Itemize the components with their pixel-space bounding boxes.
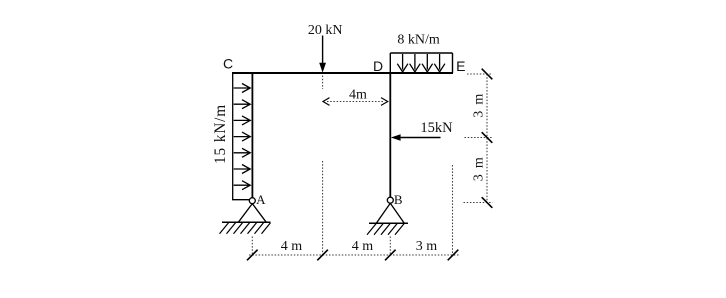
svg-text:3 m: 3 m <box>416 239 438 254</box>
svg-text:4m: 4m <box>349 88 367 103</box>
svg-text:B: B <box>394 192 403 207</box>
svg-text:4 m: 4 m <box>352 239 374 254</box>
svg-text:3 m: 3 m <box>471 157 486 181</box>
svg-text:15 kN/m: 15 kN/m <box>212 104 229 164</box>
svg-text:E: E <box>456 58 465 74</box>
svg-text:3 m: 3 m <box>471 94 486 118</box>
svg-text:20 kN: 20 kN <box>308 23 343 38</box>
svg-text:C: C <box>223 56 233 72</box>
svg-text:D: D <box>373 58 383 74</box>
svg-text:8 kN/m: 8 kN/m <box>397 32 440 47</box>
svg-text:15kN: 15kN <box>420 120 453 136</box>
svg-text:4 m: 4 m <box>281 239 303 254</box>
svg-text:A: A <box>256 192 266 207</box>
